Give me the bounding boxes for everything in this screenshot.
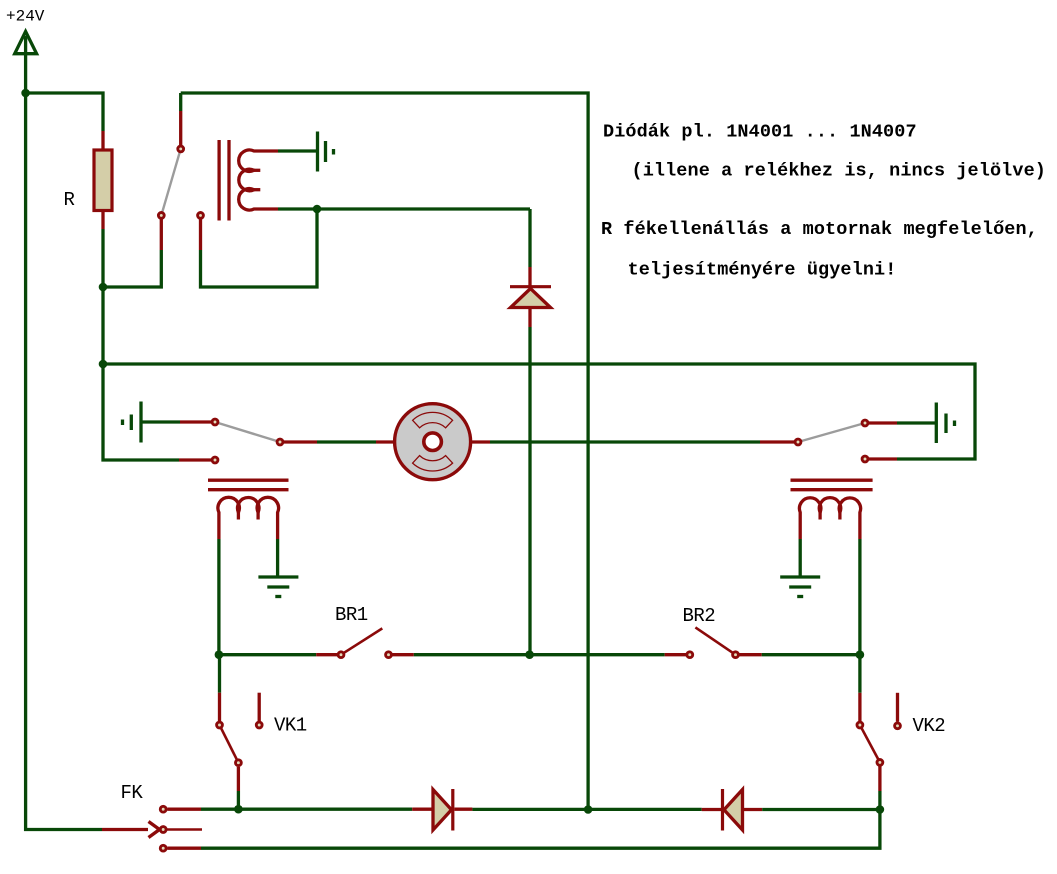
svg-text:FK: FK xyxy=(121,782,144,804)
switch SW-R terminal common xyxy=(795,439,801,445)
wire top bus xyxy=(181,93,588,810)
wire VK1 to bottom bus xyxy=(237,791,240,809)
diode D1 top stub xyxy=(528,267,531,286)
relay RL1 core lines xyxy=(208,480,289,490)
relay1 coil core lines xyxy=(219,140,229,221)
wire diode D1 to BR bus xyxy=(528,327,531,655)
motor M brush bottom xyxy=(413,456,453,471)
wire y287 link xyxy=(103,250,161,287)
wire resistor column down xyxy=(103,229,179,460)
node junction at left rail top xyxy=(21,89,30,98)
motor M hub xyxy=(424,433,442,451)
switch FK terminal throw top xyxy=(160,806,166,812)
switch FK pole arrowhead xyxy=(149,822,160,838)
relay1 contact terminal common xyxy=(178,146,184,152)
switch FK pole wire red xyxy=(102,828,148,831)
switch VK2 lever xyxy=(860,725,880,762)
diode D3 left stub xyxy=(702,808,721,811)
svg-text:(illene a relékhez is, nincs j: (illene a relékhez is, nincs jelölve) xyxy=(632,161,1046,182)
motor M brush top xyxy=(413,412,453,427)
power symbol +24V arrow xyxy=(15,32,37,56)
wire bottom bus middle xyxy=(472,808,701,811)
switch BR2 left stub xyxy=(665,653,686,656)
wire BR bus left xyxy=(219,653,316,656)
switch FK throw bottom stub xyxy=(167,847,201,850)
diode D1 bottom stub xyxy=(528,309,531,328)
node junction VK1 bottom bus xyxy=(234,805,243,814)
motor M body xyxy=(395,404,471,480)
svg-text:+24V: +24V xyxy=(6,8,45,26)
wire bottom bus right xyxy=(762,808,880,811)
wire VK1 column green xyxy=(218,655,221,693)
svg-text:R: R xyxy=(64,189,75,211)
node junction RL1 bottom xyxy=(215,650,224,659)
switch VK1 bottom stub xyxy=(237,767,240,791)
motor M right stub xyxy=(472,440,490,443)
diode D2 triangle xyxy=(433,790,452,831)
diode D3 right stub xyxy=(744,808,763,811)
node junction RL2 bottom xyxy=(856,650,865,659)
switch FK lever xyxy=(167,828,202,831)
switch VK2 terminal floating xyxy=(895,723,901,729)
switch VK2 common stub xyxy=(858,693,861,721)
svg-text:teljesítményére ügyelni!: teljesítményére ügyelni! xyxy=(628,260,897,281)
switch VK1 lever xyxy=(220,725,239,763)
wire motor to SW-R xyxy=(490,440,760,443)
switch SW-L throw2 stub xyxy=(179,458,211,461)
wire relay1 coil bottom xyxy=(278,207,530,210)
svg-text:VK2: VK2 xyxy=(913,715,946,737)
switch VK1 terminal bottom xyxy=(236,760,242,766)
wire diode D1 column xyxy=(528,209,531,267)
wire relay1 throw2 down xyxy=(201,209,318,287)
switch SW-R lever xyxy=(798,423,865,442)
diode D1 triangle xyxy=(511,289,551,308)
wire left rail xyxy=(26,53,102,830)
switch VK1 common stub xyxy=(218,693,221,721)
relay1 contact throw2 stub xyxy=(199,220,202,251)
relay RL1 coil cusp spikes xyxy=(238,506,258,520)
switch SW-L common stub xyxy=(284,440,317,443)
switch BR2 right stub xyxy=(740,653,762,656)
switch BR2 lever xyxy=(695,627,735,654)
wire RL1 right terminal to ground xyxy=(276,539,279,577)
wire SW-R to G3 xyxy=(897,421,935,424)
svg-text:R fékellenállás a motornak meg: R fékellenállás a motornak megfelelően, xyxy=(601,219,1038,240)
wire RL2 left terminal to ground xyxy=(799,539,802,577)
motor M left stub xyxy=(376,440,393,443)
resistor R xyxy=(94,150,112,211)
wire FK bottom throw bus xyxy=(201,810,880,849)
switch VK1 terminal floating xyxy=(256,722,262,728)
node junction VK2 bottom bus xyxy=(876,805,885,814)
ground G2 xyxy=(123,402,142,443)
diode D2 cathode bar xyxy=(451,789,454,831)
ground G3 xyxy=(936,403,954,444)
relay1 contact throw1 stub xyxy=(160,220,163,251)
switch VK2 terminal bottom xyxy=(877,760,883,766)
svg-text:Diódák pl. 1N4001 ... 1N4007: Diódák pl. 1N4001 ... 1N4007 xyxy=(603,121,917,142)
relay1 contact common stub xyxy=(179,111,182,145)
diode D3 cathode bar xyxy=(721,789,724,831)
wire BR bus middle xyxy=(414,653,665,656)
node junction top bus bottom xyxy=(584,805,593,814)
wire G2 to SW-L xyxy=(141,420,180,423)
relay RL2 core lines xyxy=(791,480,873,490)
switch SW-R common stub xyxy=(760,440,794,443)
wire VK2 to bottom bus xyxy=(878,791,881,810)
diode D1 cathode bar xyxy=(510,285,551,288)
relay1 coil cusp spikes xyxy=(247,170,260,189)
switch SW-L terminal throw1 xyxy=(212,419,218,425)
relay RL1 coil winding xyxy=(218,497,279,539)
diode D2 left stub xyxy=(412,808,432,811)
switch BR1 terminal right xyxy=(386,652,392,658)
relay1 contact terminal throw2 xyxy=(198,213,204,219)
node junction coil bottom x317 xyxy=(313,205,322,214)
ground G4 xyxy=(258,577,298,597)
relay1 contact lever xyxy=(161,149,180,216)
wire relay1 coil top to ground xyxy=(278,149,316,152)
wire RL1 left terminal down xyxy=(217,539,220,655)
resistor R top stub xyxy=(101,131,104,150)
switch SW-R terminal throw1 xyxy=(862,420,868,426)
relay1 contact terminal throw1 xyxy=(158,213,164,219)
diode D3 triangle xyxy=(724,790,743,831)
node junction resistor column y364 xyxy=(99,360,108,369)
switch SW-L throw2 stub right xyxy=(869,457,897,460)
switch FK terminal pole xyxy=(160,827,166,833)
switch FK throw top stub xyxy=(167,808,201,811)
wire main bus y364 xyxy=(103,364,975,459)
switch SW-L lever xyxy=(215,422,280,442)
wire RL2 right terminal down xyxy=(858,539,861,655)
wire VK2 column green xyxy=(858,655,861,693)
node junction resistor column y287 xyxy=(99,283,108,292)
relay RL2 coil winding xyxy=(799,498,860,539)
switch SW-L terminal throw2 xyxy=(212,457,218,463)
switch BR2 terminal left xyxy=(687,652,693,658)
switch BR1 lever xyxy=(341,628,382,654)
switch VK1 floating stub xyxy=(258,693,261,721)
switch VK1 terminal top xyxy=(217,722,223,728)
relay1 coil winding xyxy=(239,150,278,210)
wire BR bus right xyxy=(762,653,860,656)
wire bottom bus left xyxy=(201,808,412,811)
wire relay1 common stub green xyxy=(179,93,182,111)
switch BR1 terminal left xyxy=(338,652,344,658)
svg-text:BR2: BR2 xyxy=(683,605,716,627)
diode D2 right stub xyxy=(455,808,473,811)
switch SW-L throw1 stub xyxy=(180,420,211,423)
switch BR2 terminal right xyxy=(733,652,739,658)
svg-text:BR1: BR1 xyxy=(335,604,368,626)
node junction D1 column BR bus xyxy=(525,650,534,659)
switch BR1 right stub xyxy=(393,653,414,656)
svg-text:VK1: VK1 xyxy=(274,714,307,736)
switch VK2 bottom stub xyxy=(878,767,881,792)
switch BR1 left stub xyxy=(316,653,337,656)
wire SW-L to motor xyxy=(317,440,376,443)
switch SW-L terminal common xyxy=(277,439,283,445)
switch FK terminal throw bottom xyxy=(160,845,166,851)
ground G5 xyxy=(780,577,820,597)
relay RL2 coil cusp spikes xyxy=(820,506,840,520)
switch SW-R throw1 stub xyxy=(869,421,897,424)
switch SW-R terminal throw2 xyxy=(862,456,868,462)
wire top-left branch xyxy=(26,93,103,131)
switch VK2 terminal top xyxy=(857,722,863,728)
switch VK2 floating stub xyxy=(896,693,899,722)
resistor R bottom stub xyxy=(101,211,104,230)
ground G1 xyxy=(318,132,334,172)
